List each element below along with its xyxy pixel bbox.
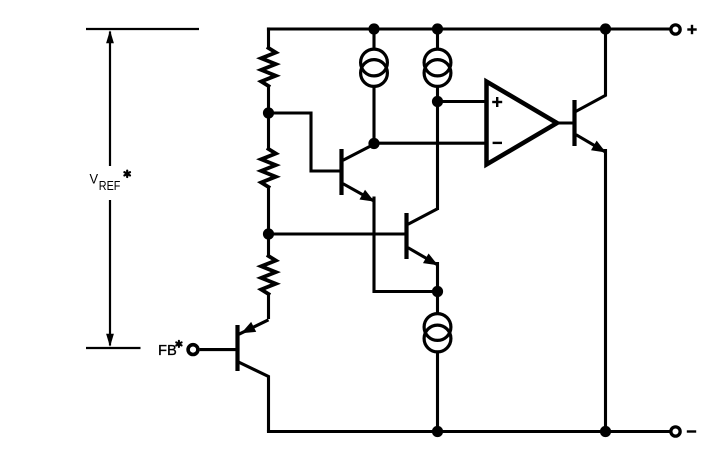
node A dot (R1/R2 junction) <box>263 107 274 118</box>
svg-text:REF: REF <box>99 179 121 193</box>
wire node C2 to op-amp - input <box>374 142 486 145</box>
wire I1 to node C2 <box>372 85 375 144</box>
svg-text:FB: FB <box>158 342 177 359</box>
transistor Q3 collector <box>408 209 438 225</box>
resistor R2 <box>261 149 276 187</box>
annotation: Vref dimension arrow line (lower segment) <box>109 200 111 346</box>
wire top rail to R1 <box>267 27 270 49</box>
wire node A to R2 <box>267 113 270 150</box>
wire op-amp output to Q4 base <box>556 121 573 124</box>
transistor Q4 emitter <box>576 135 606 153</box>
terminal - (bottom right) <box>671 427 680 436</box>
transistor Q3 base bar <box>404 213 408 259</box>
node dot bottom rail / I3 <box>432 426 443 437</box>
wire top rail (+ supply) <box>267 27 670 30</box>
wire Q3 emitter to node D <box>436 262 439 292</box>
current source I2 <box>424 49 451 86</box>
transistor Q2 base bar <box>339 149 343 195</box>
wire node D to I3 <box>436 292 439 316</box>
label + <box>687 25 696 34</box>
wire node A to Q2 base <box>269 113 341 171</box>
annotation: Vref dimension top tick line <box>86 28 199 30</box>
current source I1 <box>361 49 388 86</box>
terminal FB input <box>188 345 198 355</box>
wire R3 to Q1 emitter <box>267 293 270 319</box>
wire top rail to I1 <box>372 29 375 51</box>
transistor Q1 collector <box>239 362 269 430</box>
transistor Q1 base bar <box>235 325 239 371</box>
transistor Q4 collector <box>576 29 606 111</box>
resistor R1 <box>261 48 276 86</box>
transistor Q1 emitter (to R3) <box>239 320 269 334</box>
node D dot (emitters junction) <box>432 286 443 297</box>
wire FB terminal to Q1 base <box>200 348 238 351</box>
wire I2 to Q3 collector <box>436 85 439 210</box>
wire R1 to node A <box>267 85 270 113</box>
wire R2 to node B <box>267 186 270 234</box>
node B dot (R2/R3 junction) <box>263 228 274 239</box>
resistor R3 <box>261 256 276 294</box>
transistor Q2 collector <box>343 144 374 160</box>
label VREF* <box>90 171 130 194</box>
wire top rail to I2 <box>436 29 439 51</box>
wire Q4 emitter to bottom rail <box>604 149 607 432</box>
node C2 dot (I1 / Q2 collector / op-amp -) <box>368 138 379 149</box>
node dot bottom rail / Q4 emitter <box>600 426 611 437</box>
label - <box>687 430 696 432</box>
annotation: Vref dimension arrowhead down <box>106 334 114 347</box>
current source I3 <box>424 314 451 352</box>
label FB* <box>158 341 182 359</box>
wire node C1 to op-amp + input <box>438 100 487 103</box>
annotation: Vref dimension arrow line (upper segment) <box>109 32 111 167</box>
node dot top rail / I2 <box>432 23 443 34</box>
transistor Q4 base bar <box>572 100 576 146</box>
op-amp + input pin label <box>492 97 502 107</box>
wire bottom rail (- supply) <box>267 430 670 433</box>
node C1 dot (I2 / op-amp +) <box>432 96 443 107</box>
terminal + (top right) <box>671 25 680 34</box>
op-amp U1 <box>487 82 558 165</box>
wire Q2 emitter to node D <box>374 198 438 292</box>
wire node B to R3 <box>267 234 270 257</box>
transistor Q3 emitter <box>408 248 438 266</box>
transistor Q2 emitter <box>343 184 374 202</box>
wire node B to Q3 base <box>269 232 406 235</box>
node dot top rail / I1 <box>368 23 379 34</box>
wire I3 to bottom rail <box>436 351 439 432</box>
svg-text:V: V <box>90 171 99 187</box>
annotation: Vref dimension bottom tick line <box>86 347 141 349</box>
op-amp - input pin label <box>493 142 502 144</box>
node dot top rail / Q4 collector <box>600 23 611 34</box>
annotation: Vref dimension arrowhead up <box>106 30 114 43</box>
